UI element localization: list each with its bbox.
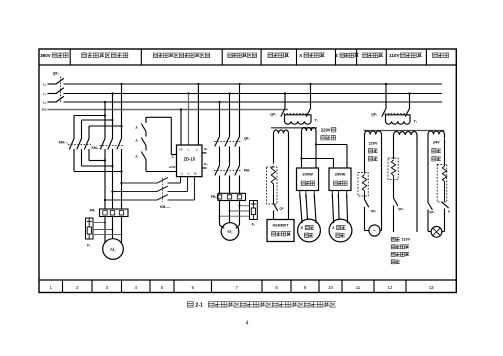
svg-text:ZD-15: ZD-15 xyxy=(183,157,195,162)
svg-text:L₂: L₂ xyxy=(43,91,47,96)
svg-text:T₂: T₂ xyxy=(414,120,418,124)
svg-text:~: ~ xyxy=(373,228,376,234)
svg-text:QF₆: QF₆ xyxy=(398,207,404,211)
svg-text:10: 10 xyxy=(328,285,333,290)
svg-text:4: 4 xyxy=(246,321,249,327)
svg-text:M₁: M₁ xyxy=(110,247,116,253)
svg-text:KM₁₋₃: KM₁₋₃ xyxy=(160,205,170,209)
svg-text:24V: 24V xyxy=(433,139,440,144)
svg-text:2-1: 2-1 xyxy=(195,302,203,308)
svg-text:FR₁: FR₁ xyxy=(90,209,97,213)
svg-text:KM₂: KM₂ xyxy=(244,169,251,173)
svg-text:200W: 200W xyxy=(335,172,346,177)
svg-text:L₂: L₂ xyxy=(196,147,198,151)
svg-text:12: 12 xyxy=(388,285,393,290)
svg-text:L₁: L₁ xyxy=(187,147,189,151)
svg-text:+24V: +24V xyxy=(168,165,175,169)
svg-text:KM₁₋₁: KM₁₋₁ xyxy=(59,141,69,145)
svg-text:X: X xyxy=(301,226,304,230)
svg-text:F₂: F₂ xyxy=(252,223,256,227)
svg-text:Z: Z xyxy=(335,53,338,58)
svg-text:J₂: J₂ xyxy=(135,139,139,143)
svg-text:QF₅: QF₅ xyxy=(371,209,377,213)
svg-text:QF₂: QF₂ xyxy=(244,137,251,141)
svg-text:QF₇: QF₇ xyxy=(279,207,285,211)
svg-text:QF₃: QF₃ xyxy=(270,112,277,116)
svg-text:110V: 110V xyxy=(389,53,400,58)
svg-text:220V: 220V xyxy=(321,127,331,132)
svg-text:L₃: L₃ xyxy=(43,99,47,104)
svg-text:220V: 220V xyxy=(368,140,377,145)
svg-text:FR₂: FR₂ xyxy=(211,195,218,199)
svg-text:F₁: F₁ xyxy=(87,244,91,248)
svg-text:KM₁₋₂: KM₁₋₂ xyxy=(91,146,101,150)
svg-text:U₁: U₁ xyxy=(181,172,184,176)
svg-text:13: 13 xyxy=(429,285,434,290)
svg-text:M₂: M₂ xyxy=(227,229,233,234)
svg-text:PE: PE xyxy=(42,107,48,112)
svg-text:W₁: W₁ xyxy=(194,172,197,176)
svg-text:110V: 110V xyxy=(402,238,411,242)
svg-text:QF₇: QF₇ xyxy=(429,210,435,214)
svg-text:QF₁: QF₁ xyxy=(53,72,60,76)
svg-text:PE: PE xyxy=(179,147,183,151)
svg-text:11: 11 xyxy=(356,285,361,290)
svg-text:380V: 380V xyxy=(40,53,52,58)
svg-text:T₁: T₁ xyxy=(315,119,319,123)
svg-text:V₁: V₁ xyxy=(187,172,190,176)
svg-text:J₃: J₃ xyxy=(135,155,139,159)
svg-text:QF₄: QF₄ xyxy=(371,112,378,116)
svg-text:GSK980T: GSK980T xyxy=(273,223,290,227)
svg-text:200W: 200W xyxy=(302,172,313,177)
